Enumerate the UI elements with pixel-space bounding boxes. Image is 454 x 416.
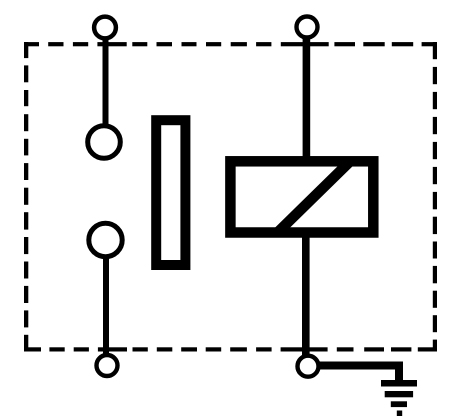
relay coil K1 (rectangle body) — [230, 161, 373, 232]
wire from coil bottom to pin P4 — [302, 233, 310, 355]
dashed relay enclosure border (top edge) — [24, 42, 437, 46]
wire from P1 to upper contact circle — [103, 37, 109, 126]
wire from P4 to ground stem (horizontal) — [318, 362, 403, 370]
dashed relay enclosure border (right edge) — [433, 42, 437, 352]
ground symbol bar 1 — [381, 380, 417, 387]
ground symbol bar 2 — [385, 391, 413, 397]
relay coil K1 diagonal stroke — [277, 161, 351, 234]
dashed relay enclosure border (left edge) — [24, 42, 28, 352]
pin terminal circle P3 (top-right) — [297, 17, 318, 38]
pin terminal circle P1 (top-left) — [94, 17, 116, 39]
pin terminal circle P2 (bottom-left) — [97, 355, 118, 376]
ground symbol bar 3 — [391, 401, 407, 407]
upper contact terminal circle — [88, 126, 121, 159]
dashed relay enclosure border (bottom edge) — [24, 347, 437, 351]
lower contact terminal circle — [89, 223, 122, 256]
wire from lower contact circle to pin P2 — [103, 257, 109, 355]
wire from P3 to coil top — [303, 37, 311, 161]
ground symbol bar 4 (tip) — [397, 411, 402, 416]
contact armature bar — [156, 120, 185, 265]
pin terminal circle P4 (bottom-right) — [298, 356, 319, 377]
ground stem wire — [395, 365, 403, 381]
